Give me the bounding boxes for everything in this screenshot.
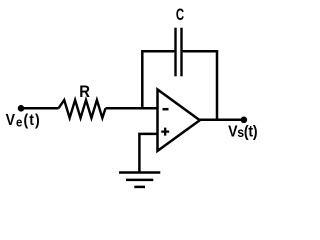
label Vs(t) [228,123,257,141]
label R [79,84,90,102]
wire feedback top right segment [183,50,219,53]
svg-text:Ve(t): Ve(t) [6,111,41,129]
label C [176,6,184,25]
svg-text:Vs(t): Vs(t) [228,123,257,141]
wire op-amp output [199,119,244,122]
capacitor C right plate [180,28,182,77]
svg-text:R: R [79,84,90,102]
wire resistor to op-amp minus input [106,107,159,110]
op-amp U1 triangle [158,90,200,151]
ground bar 1 [119,171,160,174]
ground bar 2 [126,179,153,182]
ground bar 3 [134,186,145,189]
capacitor C left plate [174,28,176,77]
op-amp plus sign [161,128,169,136]
wire feedback top left segment [141,50,174,53]
label Ve(t) [6,111,41,129]
wire input node to resistor [21,107,59,110]
node Ve input dot [18,105,25,112]
node Vs output dot [241,117,248,124]
op-amp minus sign [163,108,169,111]
wire plus input to ground [139,134,157,172]
wire feedback right vertical [216,51,219,120]
wire feedback left vertical [141,51,144,108]
resistor R [59,100,106,118]
svg-text:C: C [176,6,184,25]
